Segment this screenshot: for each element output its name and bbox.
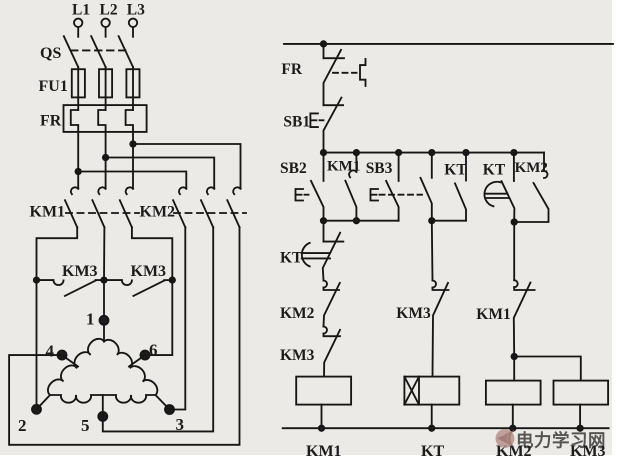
node coil branch [512,354,517,359]
node top rail [321,41,326,46]
SB2 actuator E [296,189,304,201]
terminal L2 [101,19,109,27]
contact KM1 aux (NO self-hold) [355,153,357,172]
wire [77,172,79,189]
control bottom rail [283,427,609,429]
wire phase3 to KM2 pole6 [133,144,241,189]
node KM3 right [170,277,175,282]
wire [132,67,134,110]
contact KT (NC delayed-open) [323,221,325,242]
terminal 2 stub [37,395,51,409]
motor winding left side (coil bumps) [48,339,104,395]
svg-text:SB3: SB3 [366,160,393,177]
svg-text:SB2: SB2 [280,160,307,177]
coil KM1 [296,377,351,405]
contactor KM2 pole4 contact [179,187,186,194]
svg-text:QS: QS [40,45,61,62]
node terminal 3 [165,405,174,414]
pushbutton SB3 (NO) [398,153,400,181]
node terminal 6 [141,351,150,360]
contactor KM2 pole6 contact [233,187,240,194]
terminal 5 stub [102,395,104,416]
node [321,218,326,223]
node terminal 4 [58,351,67,360]
svg-text:KM1: KM1 [327,159,360,175]
svg-text:KT: KT [280,250,303,267]
contactor KM3 contact B [122,280,132,285]
fuse FU1 pole 2 [99,69,112,97]
node rail2 d [429,150,434,155]
svg-text:KM2: KM2 [140,204,176,221]
svg-text:4: 4 [46,342,55,361]
contact KM3 mid (NC interlock) [431,221,434,281]
node rail2 c [396,150,401,155]
node KM3 left [34,277,39,282]
coil KM2 [486,381,541,405]
wire to motor terminal 2 [36,280,38,409]
relay contact FR (NC) [323,44,325,58]
SB3 linkage dashed [380,194,423,196]
node rail2 b [354,150,359,155]
svg-text:1: 1 [86,310,95,329]
svg-text:2: 2 [18,416,27,435]
wire [105,27,107,37]
SB3 actuator E [371,189,379,201]
svg-text:5: 5 [81,416,90,435]
node phase2 feed [103,155,108,160]
coil KT [404,377,459,405]
terminal 4 stub [62,355,78,366]
contact KT (NO instantaneous) [465,153,467,181]
node phase3 feed [130,141,135,146]
pushbutton SB2 (NO) [323,153,325,181]
svg-text:SB1: SB1 [283,114,310,131]
wire to KM3 coil [514,357,581,381]
contact KM2 (NC interlock) [324,281,328,288]
svg-text:KT: KT [483,162,506,179]
contactor KM2 pole5 contact [207,187,214,194]
wire [579,405,581,429]
coil KM3 [554,381,609,405]
node rail2 e [463,150,468,155]
svg-text:KT: KT [421,443,444,460]
svg-text:KM3: KM3 [62,263,98,280]
contact KM3 (NC interlock) [324,327,328,334]
node [354,218,359,223]
svg-text:KM3: KM3 [396,305,431,322]
node KM3 center [101,277,106,282]
wire KM1 pole2 out [103,227,105,280]
wire [77,27,79,37]
contactor KM3 contact A [37,279,54,281]
wire KM3 right down [145,280,172,355]
FR linkage dashed [333,72,357,74]
node [319,426,324,431]
svg-text:L1: L1 [72,2,90,19]
FR heater element phase 1 [71,110,78,172]
control top rail [284,43,613,45]
QS linkage dashed [71,49,128,51]
wire [105,158,107,189]
SB1 actuator E [310,113,318,127]
wire KM1 pole1 out [37,227,78,280]
KM1 linkage dashed [66,212,139,214]
wire KM2 pole6 out to terminal 4 [9,227,239,444]
pushbutton SB1 (NC) [324,104,344,106]
wire [321,405,323,429]
wire [77,67,79,110]
wire [105,67,107,110]
switch QS pole 2 blade [91,36,105,67]
wire [132,27,134,37]
terminal 3 stub [156,395,170,410]
node rail2 f [511,150,516,155]
node [512,219,517,224]
svg-text:KM1: KM1 [306,443,342,460]
contact KM2 aux (NO) [543,153,545,171]
node [577,426,582,431]
svg-text:FR: FR [281,61,302,78]
contact KM1 (NC interlock right) [513,222,515,280]
KM2 linkage dashed [174,212,246,214]
terminal L1 [74,19,82,27]
rail A bottom [324,220,399,222]
control rail 2 [324,152,545,154]
KT delay symbol (arc with chords) [302,243,310,267]
contactor KM1 pole3 contact [126,187,133,194]
watermark logo [496,429,516,448]
svg-text:KM1: KM1 [30,204,66,221]
node [510,426,515,431]
FR heater element phase 2 [98,110,105,158]
svg-text:3: 3 [176,415,185,434]
wire [132,144,134,189]
node terminal 2 [32,405,41,414]
wire phase1 to KM2 pole4 [78,172,186,189]
FR trip symbol [360,59,366,86]
terminal 6 stub [129,355,145,366]
motor winding bottom side (coil bumps) [50,395,156,403]
svg-text:6: 6 [149,341,158,360]
svg-text:KM1: KM1 [476,306,510,323]
node phase1 feed [76,169,81,174]
motor winding right side (coil bumps) [104,340,157,395]
svg-text:KT: KT [444,162,467,179]
thermal relay FR box [64,105,147,132]
KT delay symbol (arc with chords) [484,182,500,207]
node [429,218,434,223]
switch QS pole 3 blade [119,36,133,67]
wire KM2 pole4 out to terminal 3 [170,227,186,409]
wire to motor terminal 1 [103,280,105,341]
node terminal 1 [100,316,109,325]
FR heater element phase 3 [126,110,133,144]
svg-text:L3: L3 [127,2,145,19]
node [429,426,434,431]
svg-text:KM3: KM3 [131,263,167,280]
wire phase2 to KM2 pole5 [106,158,215,189]
wire [512,405,514,429]
svg-text:FU1: FU1 [39,78,68,95]
terminal L3 [129,19,137,27]
wire to KM2 coil [513,357,515,381]
svg-text:KM2: KM2 [280,305,315,322]
svg-text:L2: L2 [100,2,118,19]
fuse FU1 pole 3 [126,69,139,97]
wire KT bottom to SB3b column [432,220,466,222]
wire KM1 pole3 out [132,227,172,280]
switch QS pole 1 blade [64,36,78,67]
svg-text:KM3: KM3 [280,347,315,364]
contact KT (NO delayed-close) [513,153,515,181]
node rail2 a [321,150,326,155]
node terminal 5 [98,412,107,421]
contactor KM1 pole2 contact [98,187,105,194]
wire KM2 pole5 out to terminal 5 [103,227,213,431]
svg-text:电力学习网: 电力学习网 [516,431,606,451]
pushbutton SB3 second pole (NO) [431,153,433,178]
fuse FU1 pole 1 [72,69,85,97]
wire [431,405,433,429]
svg-text:FR: FR [40,113,62,130]
contactor KM1 pole1 contact [71,187,78,194]
svg-text:KM2: KM2 [515,160,548,176]
